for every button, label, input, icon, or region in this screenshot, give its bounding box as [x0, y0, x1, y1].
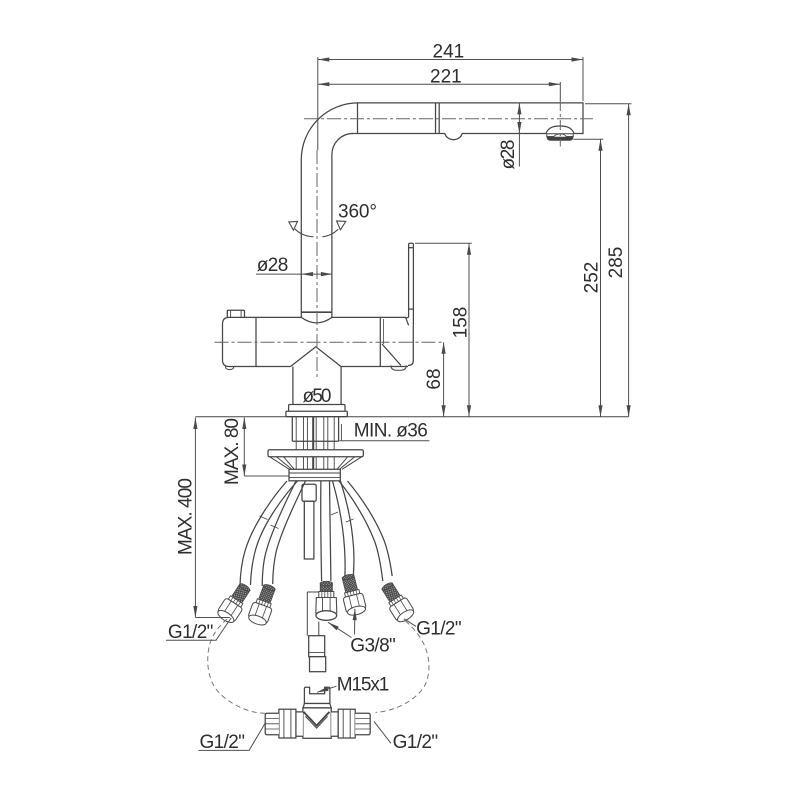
dim line 68	[443, 342, 445, 417]
body right divider second line	[383, 319, 385, 344]
threaded shank bottom	[292, 440, 338, 442]
tee right hex facets	[343, 709, 350, 738]
G12 fitting left inner	[247, 582, 280, 627]
spray aerator inner dome	[554, 134, 567, 137]
tee left hex	[279, 709, 296, 738]
coupling upper band	[309, 652, 325, 654]
body right cap bottom tab	[391, 365, 406, 370]
pullout hose coupling lower	[310, 657, 326, 672]
leader min dia36	[340, 440, 430, 442]
dim line max400	[194, 418, 196, 618]
riser pipe left edge	[300, 160, 302, 317]
hose reach dashed outline left	[208, 619, 266, 713]
svg-text:G3/8": G3/8"	[350, 636, 396, 657]
cap top button inner lines	[231, 310, 242, 317]
M15x1 connector	[304, 687, 330, 703]
riser pipe right edge	[331, 155, 333, 317]
spout horizontal section outline	[353, 103, 584, 134]
G38 fitting angled	[338, 572, 368, 617]
body left end cap	[223, 317, 257, 366]
svg-text:ø28: ø28	[257, 255, 289, 276]
spout bend inner arc	[332, 134, 353, 156]
svg-text:68: 68	[424, 368, 445, 389]
dim line 158	[468, 243, 470, 416]
svg-text:252: 252	[581, 262, 602, 294]
base flange upper	[289, 405, 345, 412]
leader G38 to vertical fitting	[328, 622, 352, 637]
tee left thread end	[265, 713, 279, 735]
tee right neck	[331, 712, 338, 736]
body axis centerline	[215, 341, 444, 343]
dim line 252	[600, 139, 602, 417]
supply hose right outer	[339, 481, 383, 581]
rotation arrowhead right	[337, 221, 346, 230]
dimensions group	[166, 57, 631, 750]
rotation arc right	[323, 229, 339, 237]
svg-text:G1/2": G1/2"	[168, 622, 214, 643]
ext line riser axis top	[317, 57, 319, 150]
dim line 241	[318, 59, 583, 61]
spray aerator face	[547, 137, 573, 141]
pullout hose coupling upper	[309, 636, 325, 657]
svg-text:G1/2": G1/2"	[416, 619, 462, 640]
pullout tube between washer and nut	[312, 457, 314, 470]
tee left thread lines	[265, 719, 279, 729]
rotation arrowhead left	[289, 221, 298, 230]
spout axis centerline	[304, 118, 593, 120]
svg-text:G1/2": G1/2"	[200, 732, 246, 753]
dim line 221	[318, 83, 561, 85]
ext line 285 top	[585, 103, 631, 105]
G12 fitting right	[377, 579, 416, 624]
dim tail dia28 vertical	[518, 134, 520, 167]
svg-text:241: 241	[433, 42, 465, 63]
supply hose left outer	[240, 481, 287, 586]
mounting nut bands	[289, 473, 340, 478]
body right divider	[379, 317, 381, 366]
body top edge	[256, 316, 406, 318]
pullout hose lower tube	[307, 592, 319, 636]
handle blade lower notch	[406, 317, 409, 325]
mounting nut	[289, 469, 340, 481]
rotation symbol group	[289, 221, 346, 237]
washer left skirt	[270, 457, 295, 470]
G12 fitting left outer	[215, 580, 254, 625]
svg-text:MAX. 400: MAX. 400	[176, 478, 197, 555]
svg-text:158: 158	[450, 307, 471, 339]
tee right hex	[338, 709, 355, 738]
leader G38 to angled fitting	[354, 609, 356, 635]
cap bottom tab	[226, 367, 234, 370]
ext line max80 bottom	[244, 475, 289, 477]
body bottom edge	[256, 366, 408, 368]
riser pipe ball end arc	[301, 317, 332, 323]
ext line outlet center top	[559, 82, 561, 101]
body cone chevron	[291, 347, 342, 367]
ext line 252 top	[574, 138, 604, 140]
ext line 158 top	[415, 242, 472, 244]
washer right skirt	[337, 457, 362, 470]
dim tail dia28 horizontal	[256, 273, 302, 275]
leader G12 bottom left	[198, 722, 266, 751]
svg-text:G1/2": G1/2"	[393, 732, 439, 753]
leader G12 bottom right	[374, 721, 391, 743]
dim line 285	[628, 104, 630, 417]
svg-text:M15x1: M15x1	[337, 674, 390, 695]
rotation arc left	[295, 229, 314, 237]
body right cap edge	[408, 326, 413, 366]
pullout hose tube thick	[312, 417, 314, 450]
threaded shank edges	[292, 417, 338, 442]
svg-text:ø50: ø50	[303, 386, 332, 407]
horseshoe washer plate	[268, 450, 363, 457]
leader G12 left underline	[166, 618, 231, 640]
ext line max400 bottom	[195, 617, 229, 619]
hose crossing ticks	[260, 512, 354, 529]
cap top button	[227, 310, 244, 317]
tubes between washer and nut	[296, 457, 334, 470]
countertop deck line	[195, 416, 628, 418]
text labels group	[168, 42, 627, 753]
dim line max80	[243, 418, 245, 477]
dim line dia28 vertical	[518, 103, 520, 134]
centerlines group	[215, 101, 594, 379]
sprayhead joint double line	[436, 103, 440, 134]
svg-text:360°: 360°	[338, 201, 377, 222]
supply hose center to G38	[320, 481, 323, 581]
riser axis centerline	[316, 150, 318, 379]
tee body center	[303, 708, 331, 738]
svg-text:285: 285	[606, 247, 627, 279]
spray outlet tray	[547, 134, 573, 137]
M15x1 connector flare	[303, 704, 331, 708]
svg-text:ø28: ø28	[498, 140, 519, 170]
supply tubes inside shank	[296, 417, 334, 450]
riser pipe collar line	[301, 311, 332, 313]
hose reach dashed outline right	[376, 621, 429, 712]
handle base diagonal	[382, 344, 401, 366]
drawing body group	[195, 103, 628, 738]
tee left hex facets	[284, 709, 291, 738]
tee right thread end	[355, 713, 370, 735]
tee V chamfer	[304, 712, 330, 726]
handle lever blade	[409, 243, 414, 325]
spout bend outer arc	[301, 103, 358, 160]
handle blade cap line	[409, 247, 414, 249]
base flange lower	[286, 411, 347, 416]
leader G12 right	[404, 619, 416, 627]
dim line dia28 horizontal	[302, 273, 333, 275]
pullout hose weight collar	[302, 484, 316, 501]
supply hose left inner	[262, 481, 296, 586]
outlet axis centerline	[559, 101, 561, 147]
pullout hose weight rod	[304, 501, 314, 559]
leader M15x1	[317, 686, 337, 692]
tee left neck	[296, 712, 303, 736]
G38 fitting center vertical	[316, 581, 337, 620]
min36 edge tick	[340, 424, 342, 441]
sprayhead release clip bump	[445, 134, 462, 140]
tee right thread lines	[355, 719, 370, 729]
spray outlet dome	[546, 126, 574, 134]
svg-text:221: 221	[430, 67, 462, 88]
svg-text:MIN. ø36: MIN. ø36	[354, 421, 428, 442]
svg-text:MAX. 80: MAX. 80	[222, 418, 243, 485]
handle blade sleeve line	[409, 308, 414, 310]
ext line spout right end	[582, 57, 584, 101]
spout joint line at bend	[357, 103, 359, 134]
supply hose to angled G38	[333, 481, 346, 578]
base column edges	[293, 367, 341, 405]
